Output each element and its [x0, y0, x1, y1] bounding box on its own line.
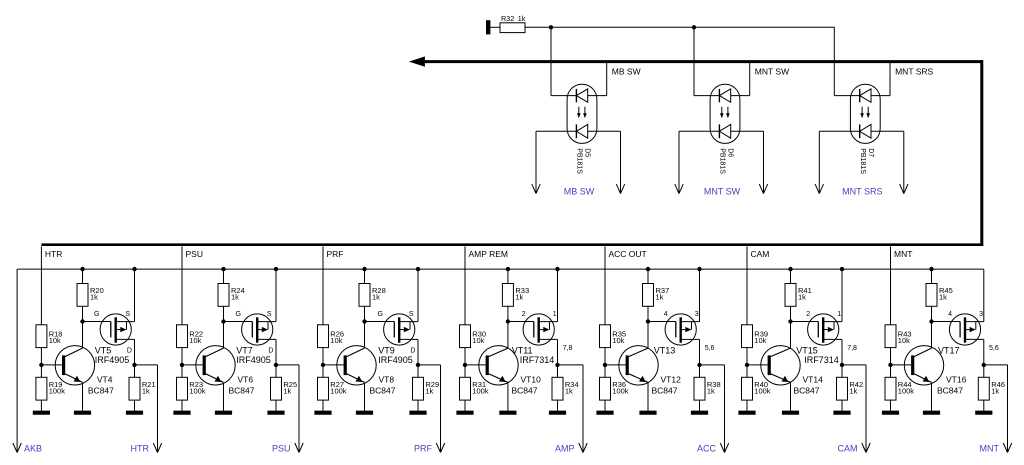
svg-text:100k: 100k	[472, 386, 489, 395]
svg-text:PB181S: PB181S	[719, 148, 726, 174]
svg-text:AMP: AMP	[555, 443, 575, 453]
wire bus to R30	[464, 269, 466, 325]
svg-text:VT9: VT9	[378, 346, 395, 356]
junction dot drain node PRF	[416, 363, 420, 367]
svg-text:D7: D7	[867, 148, 874, 157]
junction dot bus/source ACC OUT	[697, 267, 701, 271]
net label MNT SRS blue	[842, 186, 882, 196]
wire drain VT13	[699, 339, 701, 365]
svg-text:1k: 1k	[991, 386, 999, 395]
label R25 1k	[283, 380, 297, 396]
label R42 1k	[849, 380, 863, 396]
label R23 100k	[189, 380, 206, 396]
ground below R44	[882, 411, 899, 415]
wire R45 to gate node	[931, 306, 933, 321]
wire base node to R31	[464, 365, 466, 377]
wire D6 bottom diode left	[679, 130, 719, 132]
wire R38 to ground	[699, 400, 701, 411]
junction dot gate node AMP REM	[506, 319, 510, 323]
svg-text:MB SW: MB SW	[612, 66, 641, 76]
D5 coupling arrows	[577, 107, 587, 118]
wire R20 to gate node	[82, 306, 84, 321]
transistor VT10 BC847	[479, 346, 518, 385]
svg-text:1k: 1k	[90, 292, 98, 301]
D5 top LED	[576, 89, 587, 102]
svg-text:2: 2	[522, 311, 526, 318]
svg-text:IRF4905: IRF4905	[378, 355, 413, 365]
wire drain VT11	[557, 339, 559, 365]
svg-text:BC847: BC847	[370, 386, 396, 396]
wire gate ACC OUT	[648, 321, 676, 323]
svg-text:MNT SW: MNT SW	[755, 66, 789, 76]
svg-text:IRF4905: IRF4905	[236, 355, 271, 365]
label IRF7314	[520, 355, 555, 365]
wire R35 to base node	[604, 348, 606, 365]
resistor R45	[926, 284, 937, 307]
label BC847 VT16	[937, 386, 963, 396]
ground below VT6	[215, 411, 232, 415]
svg-text:CAM: CAM	[838, 443, 858, 453]
junction dot drain node MNT	[982, 363, 986, 367]
svg-text:BC847: BC847	[88, 386, 114, 396]
junction dot base node HTR	[39, 363, 43, 367]
pin label 1 VT11	[553, 311, 557, 318]
junction dot gate node PSU	[221, 319, 225, 323]
svg-text:MB SW: MB SW	[564, 186, 595, 196]
svg-text:100k: 100k	[330, 386, 347, 395]
resistor R34	[552, 377, 563, 400]
label R40 100k	[754, 380, 771, 396]
ground below R36	[596, 411, 613, 415]
svg-text:VT14: VT14	[803, 374, 824, 384]
label BC847 VT10	[512, 386, 538, 396]
junction dot base node MNT	[888, 363, 892, 367]
svg-text:1k: 1k	[707, 386, 715, 395]
block PSU separator	[181, 246, 183, 269]
svg-text:PRF: PRF	[414, 443, 433, 453]
pin label 3 VT17	[979, 311, 983, 318]
wire R21 to ground	[134, 400, 136, 411]
svg-text:1k: 1k	[142, 386, 150, 395]
wire gate HTR	[83, 321, 111, 323]
junction dot bus/R37	[646, 267, 650, 271]
label VT15	[796, 346, 818, 356]
svg-text:1: 1	[553, 311, 557, 318]
resistor R18	[36, 325, 47, 348]
label VT9	[378, 346, 395, 356]
bus wire of output row	[17, 268, 984, 270]
ground below R31	[456, 411, 473, 415]
wire CAM output	[842, 365, 870, 453]
wire source VT11 to bus	[557, 269, 559, 322]
wire drain node to R21	[134, 365, 136, 377]
svg-text:BC847: BC847	[652, 386, 678, 396]
label R32 1k	[501, 14, 526, 23]
transistor VT12 BC847	[619, 346, 658, 385]
resistor R31	[460, 377, 471, 400]
wire R39 to base node	[746, 348, 748, 365]
wire R29 to ground	[417, 400, 419, 411]
wire bus to R35	[604, 269, 606, 325]
svg-text:PSU: PSU	[186, 249, 203, 259]
svg-text:R32: R32	[501, 14, 514, 23]
wire bus to R18	[40, 269, 42, 325]
wire R24 to gate node	[223, 306, 225, 321]
label BC847 VT14	[794, 386, 820, 396]
wire collector VT6	[223, 322, 225, 349]
label R19 100k	[49, 380, 66, 396]
label R21 1k	[142, 380, 156, 396]
pin label D VT5	[127, 347, 132, 354]
wire collector VT14	[790, 322, 792, 349]
svg-text:HTR: HTR	[131, 443, 150, 453]
svg-text:D: D	[410, 347, 415, 354]
junction dot gate node PRF	[362, 319, 366, 323]
net label HTR	[131, 443, 150, 453]
block MNT separator	[890, 246, 892, 269]
net label MNT SW blue	[704, 186, 741, 196]
wire collector VT8	[364, 322, 366, 349]
wire drain VT9	[417, 339, 419, 365]
wire R36 to ground	[604, 400, 606, 411]
svg-text:VT8: VT8	[379, 374, 395, 384]
wire D7 top diode right pin	[871, 95, 890, 97]
resistor R36	[600, 377, 611, 400]
wire gate PRF	[365, 321, 395, 323]
junction dot gate node ACC OUT	[646, 319, 650, 323]
junction dot bus/R24	[221, 267, 225, 271]
wire drain node to R25	[275, 365, 277, 377]
wire R42 to ground	[841, 400, 843, 411]
resistor R32	[500, 23, 525, 33]
svg-text:IRF7314: IRF7314	[804, 355, 839, 365]
wire R18 to base node	[40, 348, 42, 365]
optocoupler D7 PB181S body	[850, 84, 880, 143]
block label ACC OUT	[609, 249, 647, 259]
wire bus to R28	[364, 269, 366, 283]
svg-text:MNT SRS: MNT SRS	[895, 66, 933, 76]
wire R34 to ground	[557, 400, 559, 411]
wire R19 to ground	[40, 400, 42, 411]
pin label S VT7	[267, 311, 272, 318]
svg-text:VT11: VT11	[512, 346, 533, 356]
wire source VT5 to bus	[134, 269, 136, 322]
ground below VT10	[499, 411, 516, 415]
svg-text:PB181S: PB181S	[576, 148, 583, 174]
pin label S VT9	[409, 311, 414, 318]
svg-text:VT4: VT4	[97, 374, 113, 384]
junction dot drain node HTR	[132, 363, 136, 367]
label R34 1k	[565, 380, 579, 396]
svg-text:100k: 100k	[189, 386, 206, 395]
svg-text:G: G	[235, 311, 240, 318]
wire gate PSU	[224, 321, 253, 323]
wire collector VT10	[507, 322, 509, 349]
ground below R34	[549, 411, 566, 415]
block ACC OUT separator	[604, 246, 606, 269]
wire drain node to R46	[983, 365, 985, 377]
svg-text:1k: 1k	[372, 292, 380, 301]
junction dot drain node AMP REM	[555, 363, 559, 367]
resistor R39	[742, 325, 753, 348]
label R18 10k	[49, 329, 63, 345]
resistor R40	[742, 377, 753, 400]
junction dot base node ACC OUT	[603, 363, 607, 367]
label VT10	[521, 374, 542, 384]
net label AMP	[555, 443, 575, 453]
label R22 10k	[189, 329, 203, 345]
D6 top LED	[719, 89, 730, 102]
wire to D5 top diode left pin	[551, 95, 576, 97]
label IRF4905	[95, 355, 130, 365]
wire emitter VT12 to ground	[647, 382, 649, 410]
wire bus to R20	[82, 269, 84, 283]
ground below R23	[173, 411, 190, 415]
wire collector VT12	[647, 322, 649, 349]
resistor R26	[318, 325, 329, 348]
svg-text:BC847: BC847	[794, 386, 820, 396]
net label PSU	[272, 443, 291, 453]
svg-text:VT16: VT16	[946, 374, 967, 384]
label VT4	[97, 374, 113, 384]
wire PSU output	[276, 365, 303, 453]
block label PSU	[186, 249, 203, 259]
svg-text:BC847: BC847	[512, 386, 538, 396]
svg-text:7,8: 7,8	[847, 345, 857, 352]
junction dot base node PSU	[180, 363, 184, 367]
pin label 7,8 VT15	[847, 345, 857, 352]
svg-text:S: S	[409, 311, 414, 318]
wire R44 to ground	[890, 400, 892, 411]
junction dot bus/R41	[788, 267, 792, 271]
resistor R44	[885, 377, 896, 400]
svg-text:VT7: VT7	[236, 346, 253, 356]
label VT11	[512, 346, 533, 356]
label VT13	[654, 346, 676, 356]
svg-text:10k: 10k	[472, 336, 484, 345]
junction dot base node AMP REM	[463, 363, 467, 367]
svg-text:5,6: 5,6	[705, 345, 715, 352]
resistor R22	[177, 325, 188, 348]
wire R30 to base node	[464, 348, 466, 365]
net label ACC	[697, 443, 717, 453]
resistor R37	[643, 284, 654, 307]
wire D6 to thick bus	[749, 62, 751, 96]
svg-text:10k: 10k	[754, 336, 766, 345]
wire R22 to base node	[181, 348, 183, 365]
junction dot gate node MNT	[929, 319, 933, 323]
resistor R25	[271, 377, 282, 400]
junction dot drain node CAM	[840, 363, 844, 367]
wire HTR output	[135, 365, 162, 453]
wire R27 to ground	[322, 400, 324, 411]
wire emitter VT6 to ground	[223, 382, 225, 410]
label R46 1k	[991, 380, 1005, 396]
resistor R27	[318, 377, 329, 400]
junction dot bus/source AMP REM	[555, 267, 559, 271]
net label MNT SRS	[895, 66, 933, 76]
svg-text:100k: 100k	[898, 386, 915, 395]
D7 top LED	[860, 89, 871, 102]
resistor R21	[129, 377, 140, 400]
svg-text:S: S	[267, 311, 272, 318]
svg-text:D6: D6	[727, 148, 734, 157]
wire bus to R43	[890, 269, 892, 325]
power terminal bar	[486, 21, 490, 34]
block label CAM	[751, 249, 770, 259]
label R45 1k	[939, 286, 953, 302]
svg-text:D5: D5	[584, 148, 591, 157]
wire drain node to R42	[841, 365, 843, 377]
svg-text:G: G	[94, 311, 99, 318]
svg-text:10k: 10k	[189, 336, 201, 345]
label R28 1k	[372, 286, 386, 302]
block CAM separator	[746, 246, 748, 269]
junction dot bus/R20	[80, 267, 84, 271]
wire MNT SW left pin drop	[693, 27, 695, 95]
junction dot drain node PSU	[274, 363, 278, 367]
svg-text:10k: 10k	[330, 336, 342, 345]
wire D5 bottom diode left	[536, 130, 576, 132]
wire R46 to ground	[983, 400, 985, 411]
junction dot bus/R45	[929, 267, 933, 271]
label R36 100k	[612, 380, 629, 396]
label IRF7314	[804, 355, 839, 365]
wire D6 bottom diode right	[731, 130, 764, 132]
wire bus to R33	[507, 269, 509, 283]
label VT17	[938, 346, 960, 356]
wire R31 to ground	[464, 400, 466, 411]
output arrow MB SW left	[532, 131, 540, 193]
svg-text:BC847: BC847	[229, 386, 255, 396]
label VT7	[236, 346, 253, 356]
resistor R46	[978, 377, 989, 400]
svg-text:HTR: HTR	[45, 249, 62, 259]
wire D5 bottom diode right	[588, 130, 621, 132]
pin label S VT5	[125, 311, 130, 318]
junction dot drain node ACC OUT	[697, 363, 701, 367]
junction dot bus/R28	[362, 267, 366, 271]
pin label 4 VT17	[948, 311, 952, 318]
D7 bottom LED	[860, 124, 871, 138]
net label MNT	[980, 443, 1000, 453]
wire R28 to gate node	[364, 306, 366, 321]
wire MB SW left pin drop	[550, 27, 552, 95]
svg-text:D: D	[268, 347, 273, 354]
svg-text:1k: 1k	[425, 386, 433, 395]
resistor R35	[600, 325, 611, 348]
wire base VT14	[747, 364, 768, 366]
wire bus to R22	[181, 269, 183, 325]
label R38 1k	[707, 380, 721, 396]
transistor VT8 BC847	[337, 346, 376, 385]
wire source VT13 to bus	[699, 269, 701, 322]
block AMP REM separator	[464, 246, 466, 269]
wire R40 to ground	[746, 400, 748, 411]
wire base VT16	[891, 364, 912, 366]
thick bus arrow line	[409, 56, 983, 66]
wire drain VT15	[841, 339, 843, 365]
wire emitter VT16 to ground	[931, 382, 933, 410]
wire bus to R45	[931, 269, 933, 283]
output arrow MB SW right	[616, 131, 624, 193]
junction dot base node CAM	[745, 363, 749, 367]
svg-text:VT10: VT10	[521, 374, 542, 384]
svg-text:100k: 100k	[49, 386, 66, 395]
wire terminal to R32	[490, 26, 500, 28]
ground below R19	[33, 411, 50, 415]
svg-text:10k: 10k	[898, 336, 910, 345]
transistor VT14 BC847	[761, 346, 800, 385]
junction dot base node PRF	[321, 363, 325, 367]
wire drain VT7	[275, 339, 277, 365]
wire R33 to gate node	[507, 306, 509, 321]
wire R37 to gate node	[647, 306, 649, 321]
label R39 10k	[754, 329, 768, 345]
svg-text:MNT SRS: MNT SRS	[842, 186, 882, 196]
svg-text:VT13: VT13	[654, 346, 676, 356]
label BC847 VT4	[88, 386, 114, 396]
transistor VT6 BC847	[196, 346, 235, 385]
ground below R38	[691, 411, 708, 415]
block label AMP REM	[469, 249, 509, 259]
label VT6	[238, 374, 254, 384]
wire drain node to R34	[557, 365, 559, 377]
wire base node to R40	[746, 365, 748, 377]
wire bus to R24	[223, 269, 225, 283]
resistor R41	[785, 284, 796, 307]
ground below VT8	[356, 411, 373, 415]
wire base VT8	[323, 364, 344, 366]
pin label D VT7	[268, 347, 273, 354]
output arrow MNT SRS right	[900, 131, 908, 193]
ground below R25	[267, 411, 284, 415]
wire R43 to base node	[890, 348, 892, 365]
svg-text:1k: 1k	[849, 386, 857, 395]
pin label D VT9	[410, 347, 415, 354]
label R20 1k	[90, 286, 104, 302]
transistor VT9 IRF4905	[384, 314, 418, 345]
junction dot bus/source PSU	[274, 267, 278, 271]
svg-text:3: 3	[979, 311, 983, 318]
wire AKB	[13, 269, 21, 452]
D5 bottom LED	[576, 124, 587, 138]
net label MB SW	[612, 66, 641, 76]
wire collector VT16	[931, 322, 933, 349]
wire emitter VT14 to ground	[790, 382, 792, 410]
wire R41 to gate node	[790, 306, 792, 321]
wire drain node to R29	[417, 365, 419, 377]
svg-text:AKB: AKB	[24, 443, 42, 453]
wire to D6 top diode left pin	[694, 95, 719, 97]
transistor VT4 BC847	[55, 346, 94, 385]
svg-text:PB181S: PB181S	[859, 148, 866, 174]
junction dot at x=694	[692, 25, 696, 29]
svg-text:VT12: VT12	[661, 374, 682, 384]
ground below VT14	[782, 411, 799, 415]
D6 bottom LED	[719, 124, 730, 138]
svg-text:4: 4	[664, 311, 668, 318]
pin label 5,6 VT17	[989, 345, 999, 352]
wire drain node to R38	[699, 365, 701, 377]
pin label 2 VT11	[522, 311, 526, 318]
svg-text:VT5: VT5	[95, 346, 112, 356]
resistor R42	[837, 377, 848, 400]
svg-text:1k: 1k	[515, 292, 523, 301]
svg-text:S: S	[125, 311, 130, 318]
pin label G VT9	[377, 311, 382, 318]
svg-text:2: 2	[806, 311, 810, 318]
